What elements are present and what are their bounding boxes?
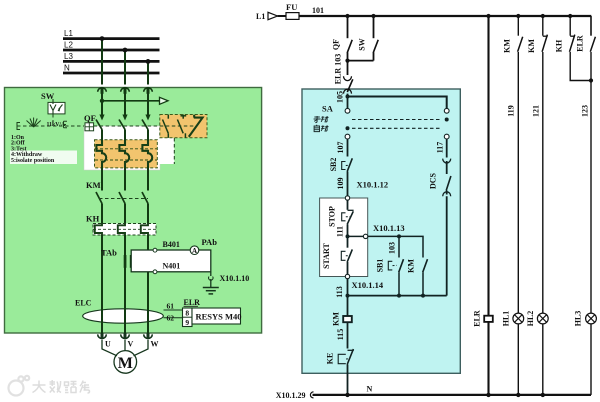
- svg-text:101: 101: [312, 6, 324, 15]
- svg-text:L1: L1: [256, 12, 265, 21]
- svg-text:9: 9: [185, 318, 189, 327]
- svg-text:N401: N401: [163, 262, 181, 271]
- svg-text:L3: L3: [64, 52, 73, 61]
- svg-text:N: N: [64, 64, 70, 73]
- svg-text:ELR: ELR: [575, 35, 584, 52]
- svg-text:105: 105: [335, 91, 344, 103]
- svg-text:HL3: HL3: [573, 311, 582, 327]
- svg-text:ELR 103: ELR 103: [333, 54, 342, 84]
- svg-text:STOP: STOP: [327, 206, 336, 227]
- svg-text:TAb: TAb: [101, 248, 117, 258]
- svg-text:ELR: ELR: [472, 310, 481, 327]
- svg-text:62: 62: [167, 314, 175, 323]
- svg-text:121: 121: [531, 105, 540, 117]
- svg-text:M: M: [118, 355, 133, 372]
- svg-text:ELR: ELR: [184, 298, 201, 307]
- svg-text:KH: KH: [554, 39, 563, 52]
- svg-text:U: U: [105, 340, 111, 349]
- svg-text:KH: KH: [86, 214, 100, 224]
- svg-text:SB2: SB2: [329, 158, 338, 172]
- svg-text:X10.1.10: X10.1.10: [220, 274, 250, 283]
- svg-text:103: 103: [387, 242, 396, 254]
- svg-text:123: 123: [580, 105, 589, 117]
- svg-text:A: A: [192, 247, 197, 255]
- svg-text:KE: KE: [325, 353, 334, 365]
- svg-text:X10.1.14: X10.1.14: [352, 280, 384, 290]
- svg-text:DCS: DCS: [428, 172, 437, 189]
- svg-text:FU: FU: [286, 2, 297, 12]
- svg-text:KM: KM: [527, 39, 536, 53]
- svg-text:KM: KM: [331, 312, 340, 326]
- svg-text:113: 113: [335, 286, 344, 298]
- svg-text:X10.1.13: X10.1.13: [373, 223, 405, 233]
- svg-text:RESYS M40: RESYS M40: [196, 311, 242, 321]
- svg-text:L2: L2: [64, 41, 73, 50]
- svg-text:X10.1.29: X10.1.29: [276, 391, 306, 400]
- svg-text:107: 107: [336, 142, 345, 154]
- svg-text:109: 109: [336, 178, 345, 190]
- svg-text:START: START: [322, 242, 331, 268]
- svg-text:KM: KM: [502, 39, 511, 53]
- svg-text:SB1: SB1: [375, 259, 384, 273]
- svg-text:X10.1.12: X10.1.12: [357, 180, 389, 190]
- svg-text:HL2: HL2: [526, 311, 535, 327]
- svg-text:L1: L1: [64, 29, 73, 38]
- svg-text:QF: QF: [84, 113, 96, 123]
- svg-text:KM: KM: [406, 259, 415, 273]
- svg-text:111: 111: [335, 226, 344, 237]
- svg-text:SW: SW: [357, 38, 366, 50]
- svg-text:5:isolate position: 5:isolate position: [11, 158, 55, 164]
- svg-text:61: 61: [167, 302, 175, 311]
- svg-text:KM: KM: [86, 180, 101, 190]
- svg-text:HL1: HL1: [501, 311, 510, 327]
- svg-text:QF: QF: [331, 39, 340, 50]
- svg-text:SA: SA: [322, 104, 334, 114]
- svg-text:N: N: [367, 385, 373, 394]
- svg-text:117: 117: [435, 142, 444, 154]
- svg-text:119: 119: [506, 105, 515, 117]
- svg-text:115: 115: [336, 329, 345, 341]
- svg-text:W: W: [151, 340, 159, 349]
- svg-text:PAb: PAb: [202, 237, 218, 247]
- svg-text:ELC: ELC: [75, 299, 92, 308]
- svg-text:V: V: [128, 340, 134, 349]
- svg-text:8: 8: [185, 309, 189, 318]
- svg-text:B401: B401: [163, 240, 180, 249]
